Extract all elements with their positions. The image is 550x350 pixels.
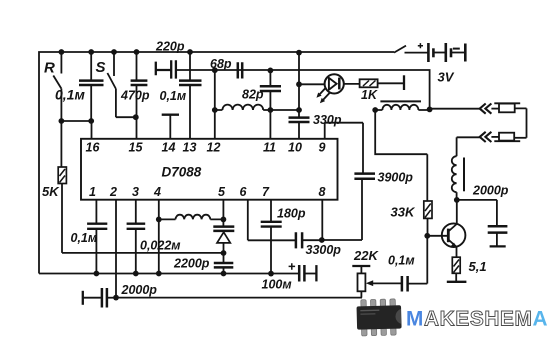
pin 14 stub with T-bar bbox=[162, 114, 179, 116]
svg-text:14: 14 bbox=[162, 141, 176, 155]
pin 1 column 0,1м bbox=[95, 200, 97, 274]
LED emission arrows bbox=[319, 88, 330, 102]
svg-text:0,1м: 0,1м bbox=[160, 89, 187, 103]
svg-text:470p: 470p bbox=[120, 89, 150, 103]
svg-text:D7088: D7088 bbox=[162, 165, 202, 180]
inductor L3 secondary coil bbox=[456, 137, 458, 156]
wire base node down to coupling cap bbox=[426, 236, 428, 284]
inductor L1 pins 12-11 bbox=[215, 105, 271, 110]
capacitor C11 2200p bbox=[214, 263, 234, 267]
svg-text:0,1м: 0,1м bbox=[388, 254, 415, 268]
IC U1 D7088 bbox=[81, 139, 338, 200]
svg-text:3: 3 bbox=[132, 185, 139, 199]
node R bottom junction bbox=[59, 118, 65, 124]
pin 12 branch bbox=[214, 70, 216, 139]
svg-text:0,022м: 0,022м bbox=[140, 239, 181, 253]
wire bottom rail 2 bbox=[116, 297, 362, 299]
svg-text:S: S bbox=[96, 59, 106, 76]
switch power top right bbox=[394, 46, 428, 53]
svg-text:5K: 5K bbox=[42, 184, 60, 199]
pin 16 lead bbox=[91, 121, 93, 139]
inductor L2 top right bbox=[375, 105, 429, 110]
svg-text:12: 12 bbox=[207, 141, 221, 155]
pin 5 column varactor bbox=[222, 200, 224, 227]
arrow into 22K wiper bbox=[373, 282, 402, 284]
wire 5K to varactor node bbox=[62, 252, 224, 254]
svg-text:3300p: 3300p bbox=[306, 243, 342, 257]
wire left border + top rail bbox=[39, 52, 394, 274]
svg-text:180p: 180p bbox=[277, 207, 306, 221]
capacitor C2 470p / pin 15 column bbox=[136, 52, 138, 139]
svg-text:330p: 330p bbox=[313, 113, 342, 127]
svg-text:R: R bbox=[44, 60, 55, 77]
LED VD1 bbox=[299, 83, 325, 85]
svg-text:22K: 22K bbox=[353, 248, 379, 263]
capacitor C10 2000p left bbox=[82, 291, 84, 305]
svg-text:3900p: 3900p bbox=[378, 171, 414, 185]
resistor R 5K bbox=[60, 121, 63, 253]
svg-text:MAKESHEMA: MAKESHEMA bbox=[406, 307, 548, 330]
svg-text:2000p: 2000p bbox=[472, 184, 509, 198]
plus sign 100м bbox=[289, 263, 296, 270]
resistor R 1K bbox=[360, 79, 378, 87]
capacitor C12 3300p bbox=[296, 232, 302, 248]
pin 10 / LED column bbox=[298, 53, 300, 139]
switch R bbox=[53, 52, 61, 121]
pin 7 column 180p bbox=[270, 200, 272, 274]
svg-text:13: 13 bbox=[183, 141, 197, 155]
svg-text:5,1: 5,1 bbox=[469, 259, 487, 274]
connector X2 row2 bbox=[514, 137, 526, 139]
battery GB 3V bbox=[427, 43, 430, 62]
svg-text:82p: 82p bbox=[242, 88, 264, 102]
wire L2 right to connector row1 bbox=[430, 108, 480, 110]
svg-text:7: 7 bbox=[262, 185, 270, 199]
pin numbers bbox=[86, 141, 326, 200]
resistor R 33K bbox=[426, 154, 428, 236]
svg-text:8: 8 bbox=[319, 185, 326, 199]
capacitor C9 0,1м coupling bbox=[408, 283, 427, 285]
svg-text:33K: 33K bbox=[391, 205, 416, 220]
svg-text:2200p: 2200p bbox=[173, 257, 210, 271]
svg-text:0,1м: 0,1м bbox=[55, 87, 85, 103]
capacitor C13 3900p column bbox=[325, 123, 363, 240]
svg-text:6: 6 bbox=[240, 185, 248, 199]
potentiometer R 22K bbox=[352, 265, 370, 267]
svg-text:10: 10 bbox=[288, 141, 302, 155]
svg-text:16: 16 bbox=[86, 141, 101, 155]
svg-text:15: 15 bbox=[129, 141, 144, 155]
T-bar end of 1K branch bbox=[403, 75, 405, 90]
pin 2 column to 2000p bbox=[115, 200, 117, 298]
ground bar emitter bbox=[447, 281, 467, 283]
pin 8 column bbox=[322, 200, 362, 240]
capacitor C4 0,1м / pin 13 column bbox=[189, 52, 191, 139]
capacitor C5 68p horizontal bbox=[238, 62, 242, 78]
connector X1 row1 bbox=[480, 104, 492, 114]
svg-text:0,1м: 0,1м bbox=[71, 231, 98, 245]
wire 220p to rail y70 and corner down bbox=[176, 70, 430, 109]
capacitor C8 2000p right bbox=[496, 200, 498, 247]
capacitor C14 100м electrolytic on rail bbox=[299, 265, 304, 282]
transistor VT1 bbox=[427, 235, 448, 237]
wire collector node to 2000p bbox=[457, 199, 497, 201]
svg-text:100м: 100м bbox=[262, 278, 292, 292]
svg-text:11: 11 bbox=[263, 141, 276, 155]
capacitor C7 330p bbox=[289, 118, 310, 122]
svg-text:2: 2 bbox=[109, 185, 117, 199]
svg-text:5: 5 bbox=[218, 185, 226, 199]
svg-text:2000p: 2000p bbox=[121, 283, 158, 297]
inductor L4 pins 4-5 bbox=[159, 215, 224, 220]
node R top bbox=[59, 49, 65, 55]
wire R to C1 bottom bbox=[61, 120, 91, 122]
wire ground rail bottom left bbox=[39, 273, 299, 275]
resistor R 5,1 bbox=[452, 257, 460, 273]
svg-text:68p: 68p bbox=[210, 57, 232, 71]
svg-text:3V: 3V bbox=[438, 70, 455, 85]
svg-text:9: 9 bbox=[319, 141, 326, 155]
wire L2 tap down to 33K bbox=[375, 110, 427, 154]
capacitor C3 220p horizontal with T-bar end bbox=[156, 60, 176, 78]
svg-text:1: 1 bbox=[89, 185, 96, 199]
pin 6 branch bbox=[248, 200, 296, 241]
pin 4 column bbox=[158, 200, 160, 274]
capacitor C6 82p / pin 11 column bbox=[269, 70, 271, 138]
svg-text:4: 4 bbox=[153, 185, 161, 199]
svg-text:1K: 1K bbox=[361, 88, 378, 102]
svg-text:220p: 220p bbox=[155, 40, 185, 54]
plus sign battery bbox=[418, 43, 423, 48]
pin 3 column 0,022м bbox=[135, 200, 137, 274]
logo chip icon bbox=[356, 299, 401, 336]
switch S bbox=[107, 52, 135, 117]
capacitor C1 0,1м bbox=[90, 52, 92, 121]
wire pin11 node to 330p node bbox=[270, 109, 299, 111]
varactor VD2 bbox=[213, 227, 234, 231]
